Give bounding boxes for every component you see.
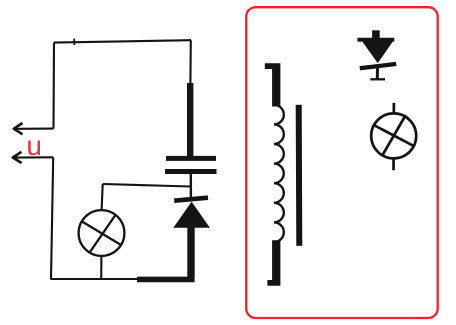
inductor L1 core bar xyxy=(296,105,303,246)
diode D1 cathode bar xyxy=(174,198,208,201)
wire left vertical upper xyxy=(52,43,55,129)
wire thick lead below diode xyxy=(187,227,194,278)
diode D (panel) cathode bar xyxy=(360,64,396,68)
lamp E (panel) bottom stub xyxy=(392,158,395,170)
wire thin vertical capacitor to diode xyxy=(190,174,192,201)
diode D (panel) top stub xyxy=(372,30,380,39)
inductor L1 coil xyxy=(274,105,284,242)
wire junction to lamp xyxy=(103,184,191,187)
diode D1 triangle xyxy=(174,203,209,228)
lamp E (panel) cross xyxy=(374,125,413,145)
wire right vertical thin xyxy=(189,40,192,84)
lamp E (panel) circle xyxy=(371,113,416,158)
panel frame xyxy=(246,7,438,318)
capacitor C1 plate top xyxy=(166,156,216,161)
diode D (panel) top bar xyxy=(357,38,394,42)
lamp E1 cross xyxy=(82,222,122,246)
diode D (panel) triangle xyxy=(363,41,393,62)
wire left vertical lower xyxy=(51,157,53,279)
wire arrow upper xyxy=(15,128,54,130)
svg-text:u: u xyxy=(26,130,42,161)
diode D (panel) foot xyxy=(370,78,385,80)
lamp E (panel) top stub xyxy=(392,103,395,114)
wire lamp bottom stub xyxy=(100,256,102,279)
wire top horizontal xyxy=(54,40,191,42)
capacitor C1 plate bottom xyxy=(165,169,217,174)
wire lamp top stub xyxy=(102,184,103,210)
wire bottom thin xyxy=(51,278,138,280)
wire arrow lower (u measurement) xyxy=(14,156,54,158)
inductor L1 terminal top xyxy=(265,63,281,106)
diode D (panel) bottom stub xyxy=(376,66,379,80)
lamp E1 circle xyxy=(79,210,125,256)
wire junction tick on top wire xyxy=(73,39,75,45)
wire thick lead to capacitor C1 xyxy=(187,83,193,156)
wire thick bottom segment xyxy=(137,277,195,283)
inductor L1 terminal bottom xyxy=(267,240,280,285)
